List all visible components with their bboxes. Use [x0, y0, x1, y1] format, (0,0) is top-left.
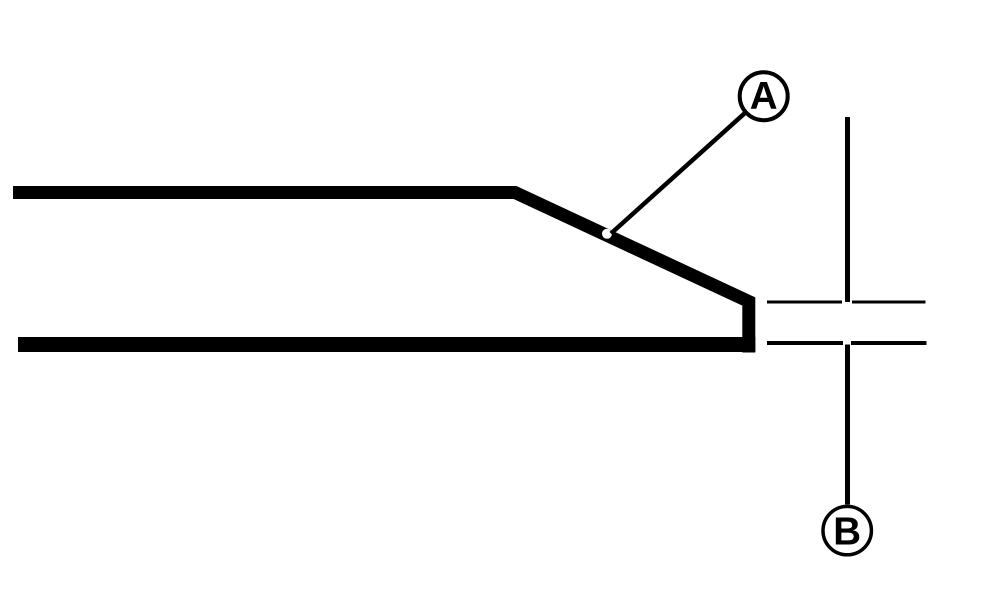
thin gap line bottom (right segment) [851, 341, 927, 345]
blade bottom edge [18, 337, 755, 352]
white notch at leader tip junction [602, 229, 612, 239]
vertical centerline upper segment [845, 117, 850, 302]
svg-text:B: B [833, 511, 861, 554]
thin gap line top (right segment) [852, 301, 926, 304]
thin gap line bottom (left segment) [767, 341, 843, 345]
vertical centerline lower segment [845, 345, 850, 505]
leader line to A [611, 113, 745, 233]
callout circle A [740, 72, 788, 120]
callout circle B [823, 506, 871, 554]
thin gap line top (left segment) [767, 301, 842, 304]
svg-text:A: A [750, 75, 778, 118]
blade body outline: top edge, bevel and tip end [13, 193, 749, 353]
